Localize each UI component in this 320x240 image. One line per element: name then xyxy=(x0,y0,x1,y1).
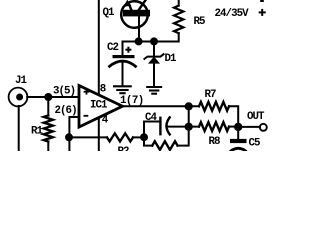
ground xyxy=(147,87,161,94)
wire node B down to C5 xyxy=(237,127,239,139)
wire IC1 -input to feedback column xyxy=(69,117,79,151)
svg-text:C4: C4 xyxy=(145,112,158,124)
svg-text:24/35V: 24/35V xyxy=(215,8,250,20)
svg-text:J1: J1 xyxy=(15,75,28,87)
resistor R5 xyxy=(174,6,183,34)
resistor R3 xyxy=(152,141,177,150)
wire feedback node to R2 xyxy=(69,136,107,138)
svg-text:R2: R2 xyxy=(118,146,130,151)
wire J1 sleeve down xyxy=(18,106,20,151)
svg-text:R1: R1 xyxy=(31,125,44,137)
wire R7 corner down to node B xyxy=(229,106,238,127)
svg-text:2(6): 2(6) xyxy=(55,105,77,117)
svg-text:1(7): 1(7) xyxy=(120,95,144,107)
node A xyxy=(185,102,193,110)
svg-text:R5: R5 xyxy=(194,16,206,28)
zener diode D1 xyxy=(144,54,163,63)
wire IC1 output xyxy=(122,105,200,107)
svg-text:D1: D1 xyxy=(165,53,178,65)
svg-text:3(5): 3(5) xyxy=(53,86,75,98)
node C xyxy=(185,123,193,131)
wire node B to OUT xyxy=(238,126,260,128)
wire C2 corner to R5 lead xyxy=(123,33,179,55)
wire R2 to node D3 xyxy=(133,136,144,138)
resistor R2 xyxy=(107,133,133,141)
wire V+ rail to IC1 pin 8 xyxy=(98,0,100,95)
wire C4 through node C to R8 xyxy=(168,126,200,128)
op-amp IC1 xyxy=(79,86,123,128)
resistor R1 xyxy=(44,116,53,142)
wire C2 bottom lead xyxy=(122,63,124,87)
wire R1 top lead xyxy=(47,97,49,116)
node Q1 base / C2 xyxy=(135,37,143,45)
capacitor C5 xyxy=(230,139,247,151)
svg-text:R7: R7 xyxy=(205,89,217,101)
node B xyxy=(234,123,242,131)
svg-text:C5: C5 xyxy=(249,137,261,149)
ground xyxy=(114,86,131,93)
svg-text:R8: R8 xyxy=(209,136,221,148)
wire R5 top lead xyxy=(178,0,180,6)
wire R1 bottom lead xyxy=(47,142,49,152)
capacitor C4 xyxy=(160,117,169,134)
wire IC1 pin 4 down xyxy=(98,118,100,152)
supply plus xyxy=(259,0,266,16)
node D1 xyxy=(150,37,158,45)
svg-text:Q1: Q1 xyxy=(103,7,116,19)
wire D1 top lead xyxy=(153,42,155,57)
svg-text:OUT: OUT xyxy=(247,111,265,123)
connector J1 xyxy=(9,88,28,107)
terminal OUT xyxy=(260,124,267,131)
svg-text:8: 8 xyxy=(100,83,106,95)
wire node D3 up to C4 xyxy=(144,122,160,138)
wire Q1 base lead xyxy=(138,16,140,42)
resistor R7 xyxy=(199,102,229,111)
wire D1 bottom lead xyxy=(153,63,155,87)
wire J1 to IC1 +input xyxy=(27,96,79,98)
capacitor C2 xyxy=(110,47,136,67)
wire R3 to column xyxy=(178,106,189,145)
transistor Q1 xyxy=(121,0,150,28)
node input xyxy=(44,93,52,101)
wire R8 to node B xyxy=(229,126,238,128)
node D3 xyxy=(140,133,148,141)
svg-text:IC1: IC1 xyxy=(90,99,108,111)
wire node D3 down to R3 xyxy=(144,137,152,145)
node feedback xyxy=(65,133,73,141)
svg-text:C2: C2 xyxy=(107,42,119,54)
resistor R8 xyxy=(199,122,229,131)
